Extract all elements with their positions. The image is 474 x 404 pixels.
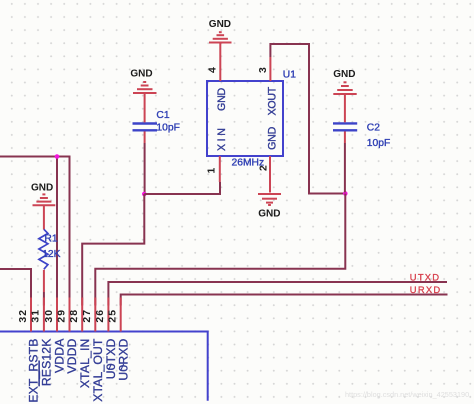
svg-text:4: 4: [208, 66, 219, 73]
node XOUT junction: [343, 191, 348, 196]
ground G1 (above R1): [33, 194, 56, 205]
svg-text:1: 1: [207, 167, 218, 174]
svg-text:URXD: URXD: [410, 284, 442, 295]
svg-text:3: 3: [258, 66, 269, 73]
capacitor C2: [333, 123, 357, 130]
wire C1 to node: [144, 131, 146, 143]
wire VDDA vertical to pin 30: [56, 157, 58, 306]
node VDD junction: [55, 154, 60, 159]
U1 pin 4: [219, 44, 221, 82]
svg-text:27: 27: [82, 309, 93, 323]
wire GND to C1: [144, 93, 146, 122]
svg-text:U0RXD: U0RXD: [116, 338, 130, 380]
wire R1 to pin 31: [43, 270, 45, 292]
U1 pin 3: [269, 57, 271, 81]
svg-text:31: 31: [31, 309, 42, 323]
wire EXT_RSTB: [0, 269, 31, 306]
U2 pin 28: [81, 298, 83, 332]
svg-text:GND: GND: [130, 68, 152, 79]
svg-text:U1: U1: [283, 70, 296, 81]
svg-text:32: 32: [18, 309, 29, 323]
node XIN junction: [142, 192, 147, 197]
wire VDDD vertical to pin 29: [69, 156, 71, 306]
wire XOUT down to pin 27: [95, 194, 345, 306]
capacitor C1: [133, 124, 158, 131]
svg-text:26: 26: [95, 309, 106, 323]
wire GND to R1: [43, 205, 45, 229]
wire URXD: [121, 295, 448, 306]
svg-text:12K: 12K: [42, 249, 60, 260]
svg-text:RES12K: RES12K: [40, 339, 54, 387]
svg-text:R1: R1: [44, 234, 57, 245]
svg-text:C1: C1: [156, 110, 169, 121]
svg-text:UTXD: UTXD: [410, 272, 441, 283]
IC U2 box edge: [0, 332, 208, 401]
svg-text:28: 28: [69, 309, 80, 323]
wire node down to pin 28: [82, 194, 144, 306]
U1 pin 2: [269, 156, 271, 193]
wire node to XIN pin 1: [144, 182, 220, 194]
svg-text:29: 29: [56, 309, 67, 323]
svg-text:10pF: 10pF: [367, 138, 390, 149]
svg-text:XTAL_IN: XTAL_IN: [78, 339, 92, 389]
U2 pin 31: [43, 298, 45, 332]
wire VDD horizontal into junction: [0, 156, 70, 158]
svg-text:XTAL_OUT: XTAL_OUT: [91, 338, 105, 402]
U2 pin 30: [56, 298, 58, 332]
U1 pin 1: [219, 156, 221, 182]
U2 pin 26: [107, 298, 109, 332]
svg-text:EXT_RSTB: EXT_RSTB: [27, 339, 41, 403]
ground G4 (above C2): [333, 82, 356, 94]
op crystal U1 box: [207, 81, 283, 156]
svg-text:2: 2: [258, 164, 269, 171]
wire C2 to node: [344, 131, 346, 143]
svg-text:GND: GND: [209, 19, 231, 30]
svg-text:10pF: 10pF: [156, 123, 179, 134]
svg-text:30: 30: [44, 309, 55, 323]
wire XOUT loop: [270, 44, 345, 194]
svg-text:XIN: XIN: [216, 126, 228, 151]
wire GND to C2: [344, 94, 346, 122]
resistor R1: [39, 229, 48, 269]
svg-text:GND: GND: [258, 208, 280, 219]
U2 pin 29: [69, 298, 71, 332]
svg-text:XOUT: XOUT: [267, 86, 279, 115]
U2 pin 32: [30, 298, 32, 332]
svg-text:GND: GND: [216, 87, 228, 110]
svg-text:https://blog.csdn.net/weixin_4: https://blog.csdn.net/weixin_42553190: [345, 390, 469, 399]
ground G3 (above pin 4): [209, 32, 232, 42]
svg-text:C2: C2: [367, 123, 380, 134]
svg-text:GND: GND: [31, 182, 53, 193]
U2 pin 27: [94, 298, 96, 332]
svg-text:GND: GND: [333, 69, 355, 80]
ground G2 (above C1): [133, 82, 157, 93]
U2 pin 25: [120, 298, 122, 332]
svg-text:25: 25: [108, 309, 119, 323]
svg-text:GND: GND: [267, 126, 279, 149]
wire UTXD: [108, 282, 447, 306]
ground G5 (below pin 2): [258, 194, 281, 205]
